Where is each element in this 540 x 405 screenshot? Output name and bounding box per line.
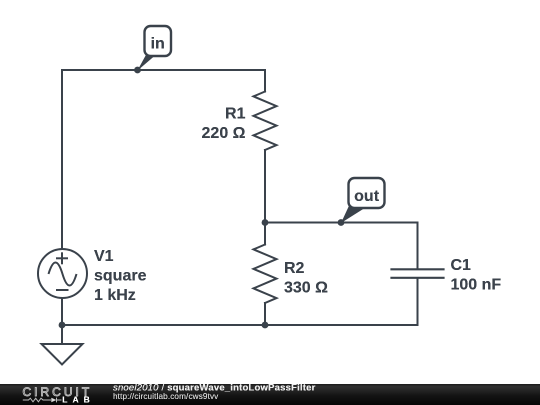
wire ground stem — [61, 325, 63, 344]
node dot in — [134, 67, 141, 74]
svg-text:LAB: LAB — [62, 394, 94, 404]
node dot R1/R2 junction — [262, 219, 269, 226]
wire R1 top lead — [264, 70, 266, 92]
CircuitLab logo resistor-diode glyph — [23, 398, 62, 403]
wire R2 top lead — [264, 223, 266, 245]
resistor R1 zigzag — [254, 92, 277, 151]
svg-text:1 kHz: 1 kHz — [94, 287, 136, 304]
svg-text:R1: R1 — [225, 106, 246, 123]
node dot out — [338, 219, 345, 226]
svg-text:V1: V1 — [94, 248, 114, 265]
wire C1 bottom lead — [417, 279, 419, 325]
wire R1 bottom lead — [264, 150, 266, 223]
node flag out (pointer + box) — [341, 178, 385, 223]
svg-text:C1: C1 — [451, 257, 472, 274]
wire bottom horizontal (ground net) — [62, 324, 418, 326]
resistor R2 zigzag — [254, 245, 277, 304]
footer bar — [0, 384, 540, 405]
wire C1 top lead — [417, 223, 419, 269]
svg-text:330 Ω: 330 Ω — [284, 280, 328, 297]
wire top horizontal (in net) — [62, 69, 265, 71]
svg-text:in: in — [151, 36, 165, 53]
svg-text:square: square — [94, 268, 147, 285]
ground symbol — [42, 344, 83, 365]
svg-text:R2: R2 — [284, 260, 305, 277]
node flag in (pointer + box) — [137, 26, 171, 71]
wire V1 bottom lead — [61, 299, 63, 326]
node dot ground-R2 — [262, 322, 269, 329]
capacitor C1 bottom plate — [392, 277, 444, 279]
svg-text:100 nF: 100 nF — [451, 277, 502, 294]
wire left vertical (V1 top lead) — [61, 70, 63, 249]
svg-text:http://circuitlab.com/cws9tvv: http://circuitlab.com/cws9tvv — [113, 392, 219, 401]
node dot ground-left — [59, 322, 66, 329]
svg-text:220 Ω: 220 Ω — [202, 125, 246, 142]
wire R2 bottom lead — [264, 303, 266, 325]
svg-text:out: out — [354, 188, 380, 205]
wire middle horizontal (out net) — [265, 222, 418, 224]
voltage source V1 symbol — [38, 249, 87, 298]
capacitor C1 top plate — [392, 268, 444, 270]
